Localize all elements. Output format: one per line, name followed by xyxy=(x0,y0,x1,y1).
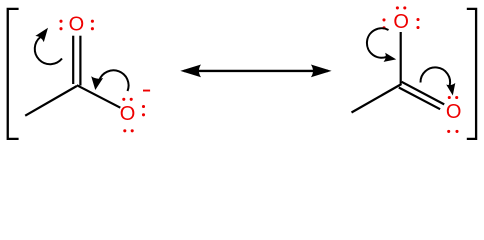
svg-text:O: O xyxy=(120,103,136,125)
svg-text:O: O xyxy=(446,101,462,123)
curved arrow from C=O pi bond to bottom O (arc) xyxy=(420,67,450,85)
curved arrow from O lone pair to C-O bond (arc) xyxy=(99,70,128,91)
bottom O bottom lone pair xyxy=(447,130,450,133)
bottom O bottom lone pair xyxy=(123,129,126,132)
minus charge xyxy=(143,90,150,92)
curved arrow from top O lone pair to C-O bond (arc) xyxy=(367,28,389,57)
C-O single bond xyxy=(77,85,121,108)
curved arrow head (to bottom O) xyxy=(446,83,455,96)
svg-text:O: O xyxy=(69,14,85,36)
methyl C-C bond xyxy=(25,86,77,116)
C=O double bond line 2 xyxy=(79,36,81,86)
resonance arrowhead right xyxy=(311,65,332,78)
svg-text:O: O xyxy=(393,11,409,33)
top O left lone pair xyxy=(382,18,385,21)
resonance arrowhead left xyxy=(180,65,201,78)
top O right lone pair xyxy=(416,18,419,21)
left bracket xyxy=(8,9,19,139)
curved arrow head (to C-O bond) xyxy=(91,76,103,90)
top O left lone pair xyxy=(59,20,62,23)
curved arrow from C=O pi bond to top O (arc) xyxy=(35,37,62,64)
bottom O top lone pair xyxy=(448,96,451,99)
methyl C-C bond xyxy=(352,84,402,113)
curved arrow head (to C-O bond) xyxy=(384,53,397,62)
right bracket xyxy=(467,9,476,139)
bottom O right lone pair xyxy=(142,105,145,108)
curved arrow head (to top O) xyxy=(35,28,48,42)
C-O single bond (vertical) xyxy=(400,32,402,84)
C=O double bond line 2 xyxy=(399,88,440,110)
resonance arrow shaft xyxy=(184,70,328,72)
bottom O top lone pair xyxy=(122,98,125,101)
top O right lone pair xyxy=(91,20,94,23)
C=O double bond line 1 xyxy=(402,82,445,105)
top O top lone pair xyxy=(396,6,399,9)
C=O double bond line 1 xyxy=(72,36,74,84)
